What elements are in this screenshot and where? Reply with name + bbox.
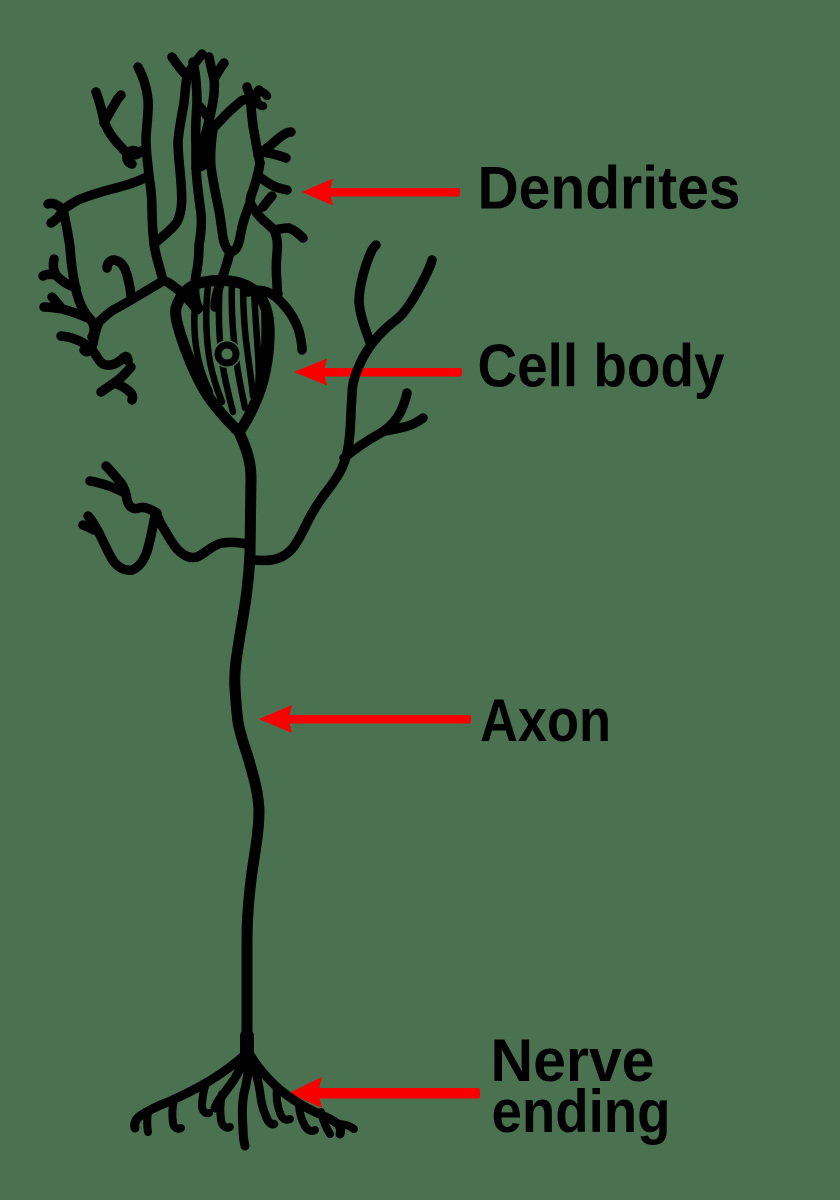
dendrites: right arch over cell <box>248 290 302 350</box>
arrow: Dendrites <box>302 179 460 206</box>
dendrites: left vertical descender <box>63 210 94 337</box>
dendrites: lower middle trunk to cell <box>215 251 230 307</box>
right branch upper-left tip <box>359 245 376 345</box>
dendrites: wavy mid branch <box>61 336 128 365</box>
nerve ending: second root finger <box>220 1094 230 1128</box>
dendrites: F2 fork joining UM <box>213 87 259 129</box>
svg-text:Axon: Axon <box>480 687 611 754</box>
dendrites: arch cell to junction <box>163 281 197 310</box>
nerve ending: right root finger 2 <box>299 1103 315 1131</box>
dendrites: inner hook <box>107 260 131 296</box>
dendrites: S1 twig <box>258 132 291 155</box>
left branch small prong <box>83 525 94 530</box>
left branch from axon <box>157 515 246 558</box>
nerve ending: middle root <box>242 1056 249 1146</box>
nerve ending: second left root <box>215 1053 247 1108</box>
dendrites: small y fork below wavy <box>101 367 133 400</box>
cell body hatching <box>194 296 210 392</box>
dendrites: S2 twig <box>261 178 287 190</box>
dendrites: small prong near S2 <box>263 196 272 207</box>
nerve ending: left root finger 3 <box>143 1111 152 1132</box>
svg-text:ending: ending <box>492 1078 671 1145</box>
nerve ending: left root finger 2 <box>172 1100 181 1129</box>
nerve ending: right main root <box>251 1056 341 1134</box>
cell body outline <box>176 280 270 432</box>
dendrites: left long branch LW <box>63 176 149 210</box>
nucleolus <box>218 345 236 363</box>
svg-text:Dendrites: Dendrites <box>478 155 741 222</box>
dendrites: V1a side hook <box>127 151 139 164</box>
dendrites: tall vertical V1 <box>138 67 163 281</box>
arrow: Cell body <box>294 359 462 386</box>
nerve ending: left main root <box>135 1053 247 1128</box>
svg-text:Cell body: Cell body <box>478 333 726 400</box>
axon <box>235 432 259 1053</box>
arrow: Nerve ending <box>289 1077 480 1108</box>
dendrites: V1a twig up-left <box>96 92 141 155</box>
dendrites: V1b prong <box>104 95 121 123</box>
dendrites: Y1 branch from V1 <box>154 54 202 244</box>
dendrites: middle trunk UM <box>199 106 230 251</box>
dendrites: right column tip prong <box>274 228 303 238</box>
dendrites: small c hook near F2 <box>256 92 267 106</box>
dendrites: J5 left arm <box>230 203 250 251</box>
nerve ending: left root finger 1 <box>202 1083 209 1113</box>
dendrites: J5 right arm to arch <box>250 203 278 294</box>
nucleolus clearing <box>213 340 241 368</box>
left branch lower hook <box>88 516 155 570</box>
left branch upper fork <box>90 466 157 513</box>
dendrites: LW hook tip down <box>51 210 63 223</box>
nerve ending: middle-right root <box>251 1057 274 1124</box>
dendrites: trunk U2 center <box>193 62 201 308</box>
nerve ending: right root finger 1 <box>277 1087 290 1120</box>
nerve ending: right root finger 3 <box>321 1112 330 1134</box>
dendrites: antler fork 2 <box>44 297 88 318</box>
right branch main from axon <box>250 345 371 560</box>
right branch side fork <box>344 393 423 458</box>
dendrites: arch fork down-left to antlers <box>84 281 163 352</box>
dendrites: horizontal twig <box>262 152 286 158</box>
nerve ending: far right twig <box>338 1124 354 1129</box>
dendrites: LW hook tip up <box>48 203 63 210</box>
dendrites: trunk U4 upper <box>251 104 260 163</box>
nerve ending: junction blob <box>240 1036 254 1058</box>
dendrites: U2 loop eye <box>197 142 209 167</box>
right branch upper-right tip <box>371 260 432 345</box>
dendrites: antler fork 1 <box>43 259 76 288</box>
dendrites: trunk U4 lower <box>250 163 260 203</box>
arrow: Axon <box>259 705 471 733</box>
dendrites: F1 branch from U2 <box>196 57 224 168</box>
